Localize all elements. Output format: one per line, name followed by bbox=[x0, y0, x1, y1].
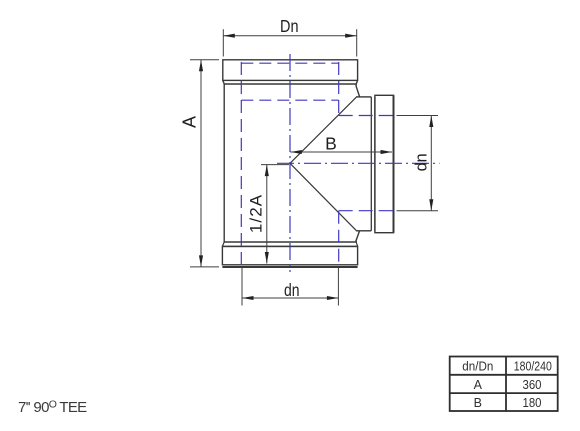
branch collar bbox=[375, 95, 394, 232]
bottom flange top line bbox=[222, 245, 357, 247]
bottom flange right chamfer bbox=[356, 242, 357, 246]
hidden line: inner wall right lower bbox=[338, 211, 340, 264]
svg-text:B: B bbox=[325, 134, 337, 154]
svg-text:A: A bbox=[474, 378, 483, 392]
dimension dn bottom arrow right bbox=[327, 296, 339, 300]
hidden line: inner wall left bbox=[240, 62, 242, 264]
dimension A line bbox=[200, 60, 202, 267]
main body left edge bbox=[223, 84, 225, 242]
table column divider bbox=[505, 357, 507, 412]
svg-text:dn: dn bbox=[413, 154, 431, 172]
centerline horizontal bbox=[277, 162, 440, 164]
main body right edge bottom segment bbox=[355, 241, 357, 242]
dimension B arrow left bbox=[290, 150, 302, 154]
dimension Dn line bbox=[223, 35, 356, 37]
dimension 1/2A arrow top bbox=[265, 165, 269, 177]
dimension dn bottom extension left bbox=[241, 268, 243, 306]
table row line 1 bbox=[450, 374, 558, 376]
dimension A arrow bottom bbox=[199, 255, 203, 267]
svg-text:B: B bbox=[474, 396, 482, 410]
dimension Dn extension right bbox=[356, 29, 358, 56]
dimension 1/2A arrow bottom bbox=[265, 252, 269, 264]
branch stub top line bbox=[356, 96, 371, 98]
dimension 1/2A extension bbox=[261, 164, 289, 166]
bottom flange base thick line bbox=[222, 266, 357, 268]
svg-text:dn: dn bbox=[284, 280, 300, 300]
svg-text:7'' 90O TEE: 7'' 90O TEE bbox=[18, 399, 87, 417]
dimension dn bottom extension right bbox=[337, 268, 339, 306]
top flange outline bbox=[223, 60, 358, 84]
branch stub bottom line bbox=[356, 230, 371, 232]
svg-text:360: 360 bbox=[523, 378, 542, 392]
tee valley line lower bbox=[290, 163, 356, 230]
hidden line: body upper bbox=[241, 99, 338, 101]
svg-text:180: 180 bbox=[523, 396, 542, 410]
tee valley line upper bbox=[290, 97, 356, 163]
branch seam line 1 bbox=[370, 97, 372, 231]
table outer border bbox=[450, 357, 558, 412]
dimension dn right line bbox=[430, 116, 432, 211]
dimension Dn arrow left bbox=[223, 34, 235, 38]
svg-text:dn/Dn: dn/Dn bbox=[462, 360, 493, 374]
data table bbox=[450, 357, 558, 412]
dimension dn bottom line bbox=[242, 297, 338, 299]
dimension A extension bottom bbox=[190, 266, 219, 268]
hidden line: top flange inner bbox=[241, 62, 338, 64]
svg-text:1/2A: 1/2A bbox=[247, 194, 266, 233]
bottom flange outline bbox=[222, 246, 357, 264]
svg-text:Dn: Dn bbox=[280, 16, 299, 36]
bottom flange left chamfer bbox=[222, 242, 224, 246]
dimension A extension top bbox=[190, 59, 219, 61]
dimension dn right arrow bottom bbox=[429, 199, 433, 211]
hidden line: branch inner bottom bbox=[339, 210, 396, 212]
dimension dn right extension top bbox=[397, 115, 439, 117]
svg-text:180/240: 180/240 bbox=[514, 360, 552, 374]
dimension Dn extension left bbox=[222, 29, 224, 56]
branch collar right face thick bbox=[393, 95, 395, 232]
dimension dn right arrow top bbox=[429, 116, 433, 128]
hidden line: branch inner top bbox=[339, 115, 396, 117]
centerline vertical bbox=[289, 54, 291, 272]
dimension B line bbox=[290, 151, 392, 153]
branch seam line 2 bbox=[374, 97, 376, 231]
dimension Dn arrow right bbox=[345, 34, 357, 38]
main body right edge top segment bbox=[355, 84, 357, 85]
hidden line: inner wall right upper bbox=[338, 62, 340, 116]
svg-text:A: A bbox=[180, 116, 200, 128]
dimension A arrow top bbox=[199, 60, 203, 72]
dimension 1/2A line bbox=[266, 165, 268, 264]
table row line 2 bbox=[450, 392, 558, 394]
dimension B arrow right bbox=[381, 150, 393, 154]
branch top chamfer bbox=[356, 85, 360, 97]
dimension dn bottom arrow left bbox=[242, 296, 254, 300]
branch bottom chamfer bbox=[356, 231, 360, 241]
body bottom line bbox=[224, 241, 356, 243]
dimension dn right extension bottom bbox=[397, 210, 439, 212]
